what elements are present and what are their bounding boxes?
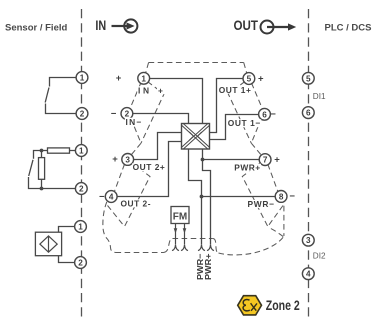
terminal DI1-5 <box>302 72 314 84</box>
node OUT direction symbol <box>261 21 297 34</box>
wire terminal 1 to isolator top <box>150 79 203 124</box>
svg-text:2: 2 <box>79 185 84 194</box>
switch S1 blade <box>45 88 49 103</box>
wire terminal 6 to isolator right <box>210 115 259 140</box>
terminal 3 <box>122 154 134 166</box>
svg-text:−: − <box>111 108 117 119</box>
svg-text:DI2: DI2 <box>313 252 326 261</box>
switch S2 blade <box>29 160 33 176</box>
svg-text:−: − <box>270 109 276 120</box>
junction dot PWR- <box>200 195 204 199</box>
right rear edge below terminal 8 <box>283 206 285 236</box>
svg-text:OUT: OUT <box>234 18 259 33</box>
svg-text:OUT 2-: OUT 2- <box>121 198 151 208</box>
top-right corner to terminal 5 <box>244 63 247 73</box>
svg-text:5: 5 <box>247 75 252 84</box>
svg-text:+: + <box>274 155 280 166</box>
svg-text:DI1: DI1 <box>313 92 326 101</box>
terminal 2 <box>121 108 133 120</box>
svg-text:PWR−: PWR− <box>248 199 275 209</box>
plug contact fork PWR- <box>198 245 205 251</box>
signal labels <box>121 85 275 209</box>
wire vertical resistor to bottom <box>41 179 43 188</box>
terminal S2-2 <box>75 183 87 195</box>
proximity sensor body <box>35 232 61 256</box>
svg-text:1: 1 <box>80 74 85 83</box>
wire field-side dashed boundary line <box>81 9 83 319</box>
bottom raised edge across plug connectors <box>173 238 213 240</box>
right edge terminal 8 to lower notch <box>268 206 283 227</box>
wire dot down to vertical resistor <box>41 151 43 158</box>
terminal 6 <box>259 108 271 120</box>
inner edge pair 3-4 <box>125 163 151 227</box>
junction dot S2 top <box>40 149 44 153</box>
svg-text:IN: IN <box>138 85 149 95</box>
junction dot PWR+ <box>201 158 205 162</box>
terminal S2-1 <box>75 145 87 157</box>
svg-text:Sensor / Field: Sensor / Field <box>5 23 67 34</box>
module housing dashed outline <box>103 63 284 255</box>
svg-text:7: 7 <box>263 156 268 165</box>
svg-text:OUT 2+: OUT 2+ <box>133 162 165 172</box>
isolator left chevron <box>189 132 193 140</box>
bottom edge step-down corner <box>213 239 219 254</box>
Ex ATEX hexagon <box>238 296 262 315</box>
svg-text:4: 4 <box>306 270 311 279</box>
svg-text:4: 4 <box>109 193 114 202</box>
right edge terminal 7 to 8 <box>268 164 278 192</box>
svg-text:1: 1 <box>79 147 84 156</box>
top-left corner to terminal 1 <box>146 63 149 73</box>
plug contact fork FM left <box>172 245 179 251</box>
terminal DI2-4 <box>302 268 314 280</box>
terminal S1-1 <box>76 72 88 84</box>
svg-text:PWR+: PWR+ <box>234 163 260 173</box>
svg-text:+: + <box>112 154 118 165</box>
terminal DI1-6 <box>302 107 314 119</box>
Ex epsilon glyph <box>243 300 250 311</box>
FM earth lead left <box>175 224 177 245</box>
top edge <box>149 62 244 64</box>
junction dot S2 bottom <box>40 187 44 191</box>
plug contact fork PWR+ <box>207 245 214 251</box>
wire terminal 2 to isolator top <box>133 114 189 124</box>
isolator right chevron <box>198 132 202 140</box>
wire PWR- branch to terminal 8 <box>202 196 276 198</box>
wire isolator bottom PWR- net to plug <box>189 149 202 245</box>
svg-text:2: 2 <box>78 259 83 268</box>
isolator U1 symbol body <box>182 123 210 149</box>
bottom-left corner curve from terminal 4 <box>103 202 116 253</box>
svg-text:+: + <box>158 85 163 95</box>
svg-text:FM: FM <box>173 212 187 223</box>
terminal circles: PLC side <box>302 72 314 279</box>
resistor R parallel vertical body <box>39 158 45 180</box>
terminal S1-2 <box>76 108 88 120</box>
svg-text:6: 6 <box>262 110 267 119</box>
terminal 4 <box>105 191 117 203</box>
sensor S3 NAMUR proximity switch <box>35 227 74 263</box>
svg-text:Zone 2: Zone 2 <box>266 298 300 313</box>
svg-text:IN: IN <box>95 18 106 33</box>
sensor switch S1 wiring <box>45 78 76 114</box>
resistor R horizontal body <box>48 148 70 153</box>
Ex x glyph <box>251 303 257 311</box>
inner edge pair 7-8 <box>242 163 267 227</box>
terminal circles: module <box>105 72 287 202</box>
node IN direction symbol <box>112 19 138 32</box>
inner edge pair 5-6 <box>228 82 251 144</box>
left edge terminal 2 to notch <box>131 118 141 143</box>
svg-text:PLC / DCS: PLC / DCS <box>325 23 372 34</box>
left edge terminal 1 to 2 <box>130 83 141 109</box>
svg-text:5: 5 <box>306 74 311 83</box>
sensor S2 contact with resistors wiring <box>29 148 77 189</box>
svg-text:OUT 1−: OUT 1− <box>228 118 261 128</box>
svg-text:+: + <box>116 73 122 84</box>
svg-text:1: 1 <box>141 74 146 83</box>
right edge terminal 5 to 6 <box>252 83 263 109</box>
inner edge pair 1-2 <box>141 82 164 144</box>
FM earth lead right <box>184 224 186 245</box>
left notch to terminal 3 <box>132 143 141 154</box>
proximity sensor diamond <box>40 236 57 252</box>
wire PLC-side dashed boundary line <box>308 9 310 319</box>
terminal 8 <box>275 191 287 203</box>
bottom edge left horizontal <box>116 252 164 254</box>
terminal 1 <box>138 72 150 84</box>
right edge terminal 6 to notch <box>251 118 261 143</box>
svg-text:1: 1 <box>78 223 83 232</box>
right notch to terminal 7 <box>251 143 260 154</box>
signal label backgrounds <box>120 86 275 208</box>
svg-text:+: + <box>258 74 264 85</box>
svg-text:PWR+: PWR+ <box>203 253 213 280</box>
wire PWR+ branch to terminal 7 <box>203 159 260 161</box>
svg-text:8: 8 <box>279 192 284 201</box>
terminal DI2-3 <box>302 234 314 246</box>
wire terminal 4 to isolator left <box>117 142 181 197</box>
wire terminal 3 to isolator left <box>134 133 182 160</box>
svg-text:2: 2 <box>80 110 85 119</box>
wire terminal 5 to isolator right <box>210 79 243 133</box>
bottom edge right sweeping curve <box>219 237 284 255</box>
svg-text:−: − <box>289 191 295 202</box>
terminal circles: field side <box>75 72 88 269</box>
svg-text:OUT 1+: OUT 1+ <box>219 85 251 95</box>
bottom edge step-up curve <box>164 239 173 253</box>
terminal S3-2 <box>75 257 87 269</box>
left edge terminal 4 to lower notch <box>108 206 125 227</box>
svg-text:6: 6 <box>306 109 311 118</box>
polarity signs <box>99 73 295 202</box>
svg-text:3: 3 <box>306 236 311 245</box>
FM functional earth box <box>171 207 189 245</box>
terminal 5 <box>243 73 255 85</box>
terminal S3-1 <box>75 221 87 233</box>
lower-right corner curl to notch <box>268 227 283 236</box>
plug contact fork FM right <box>181 245 188 251</box>
svg-text:3: 3 <box>125 155 130 164</box>
terminal 7 <box>259 154 271 166</box>
left edge terminal 3 to 4 <box>114 164 124 192</box>
wire isolator bottom PWR+ net to plug <box>203 149 211 245</box>
proximity sensor diamond axis <box>48 236 50 252</box>
svg-text:−: − <box>99 191 105 202</box>
